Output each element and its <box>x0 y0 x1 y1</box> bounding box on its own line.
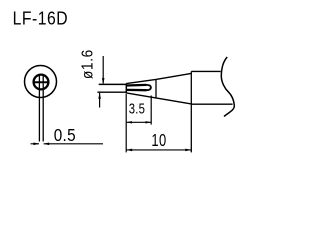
3.5 left extension (blade end down) <box>125 94 127 152</box>
blade top line <box>99 83 127 85</box>
cylinder bottom line <box>191 103 232 105</box>
dim 3.5 left arrowhead <box>126 121 132 123</box>
svg-text:ø1.6: ø1.6 <box>80 49 97 79</box>
dim 0.5 line right segment <box>44 143 103 145</box>
bevel paddle lower thick line <box>126 89 146 92</box>
svg-text:0.5: 0.5 <box>54 125 76 145</box>
blade bottom line <box>97 91 126 93</box>
dia 1.6 upper dim line <box>102 56 104 83</box>
break S-curve <box>221 57 234 117</box>
front view inner circle <box>34 75 49 90</box>
svg-text:3.5: 3.5 <box>129 100 145 117</box>
cylinder front vertical / 10 right extension <box>190 71 192 152</box>
dim 0.5 left arrowhead <box>33 143 39 146</box>
dim 3.5 line <box>126 121 151 123</box>
dia 1.6 lower dim line <box>99 93 101 108</box>
dim 0.5 line left segment <box>31 143 40 145</box>
3.5 right extension line <box>150 96 152 125</box>
dim 0.5 right arrowhead <box>43 143 49 146</box>
front view horizontal edge line <box>33 81 50 83</box>
dim 10 right arrowhead <box>185 149 191 152</box>
bevel paddle upper thick line <box>126 84 146 87</box>
cone step vertical <box>155 79 157 98</box>
dim 10 left arrowhead <box>126 149 132 152</box>
dim 3.5 right arrowhead <box>146 121 152 123</box>
front view blade left line <box>38 75 40 142</box>
svg-text:10: 10 <box>151 131 166 151</box>
cylinder top line <box>191 70 220 72</box>
front view blade right line <box>42 75 44 142</box>
wedge top thin line <box>126 73 191 83</box>
svg-text:LF-16D: LF-16D <box>13 7 68 29</box>
dim 10 line <box>126 149 191 151</box>
bevel paddle rounded end <box>147 85 151 90</box>
wedge bottom thin line <box>126 93 191 104</box>
blade end vertical <box>125 83 127 93</box>
dia 1.6 lower arrowhead (up) <box>98 93 101 99</box>
front view outer circle <box>25 66 57 98</box>
dia 1.6 upper arrowhead (down) <box>102 78 105 84</box>
